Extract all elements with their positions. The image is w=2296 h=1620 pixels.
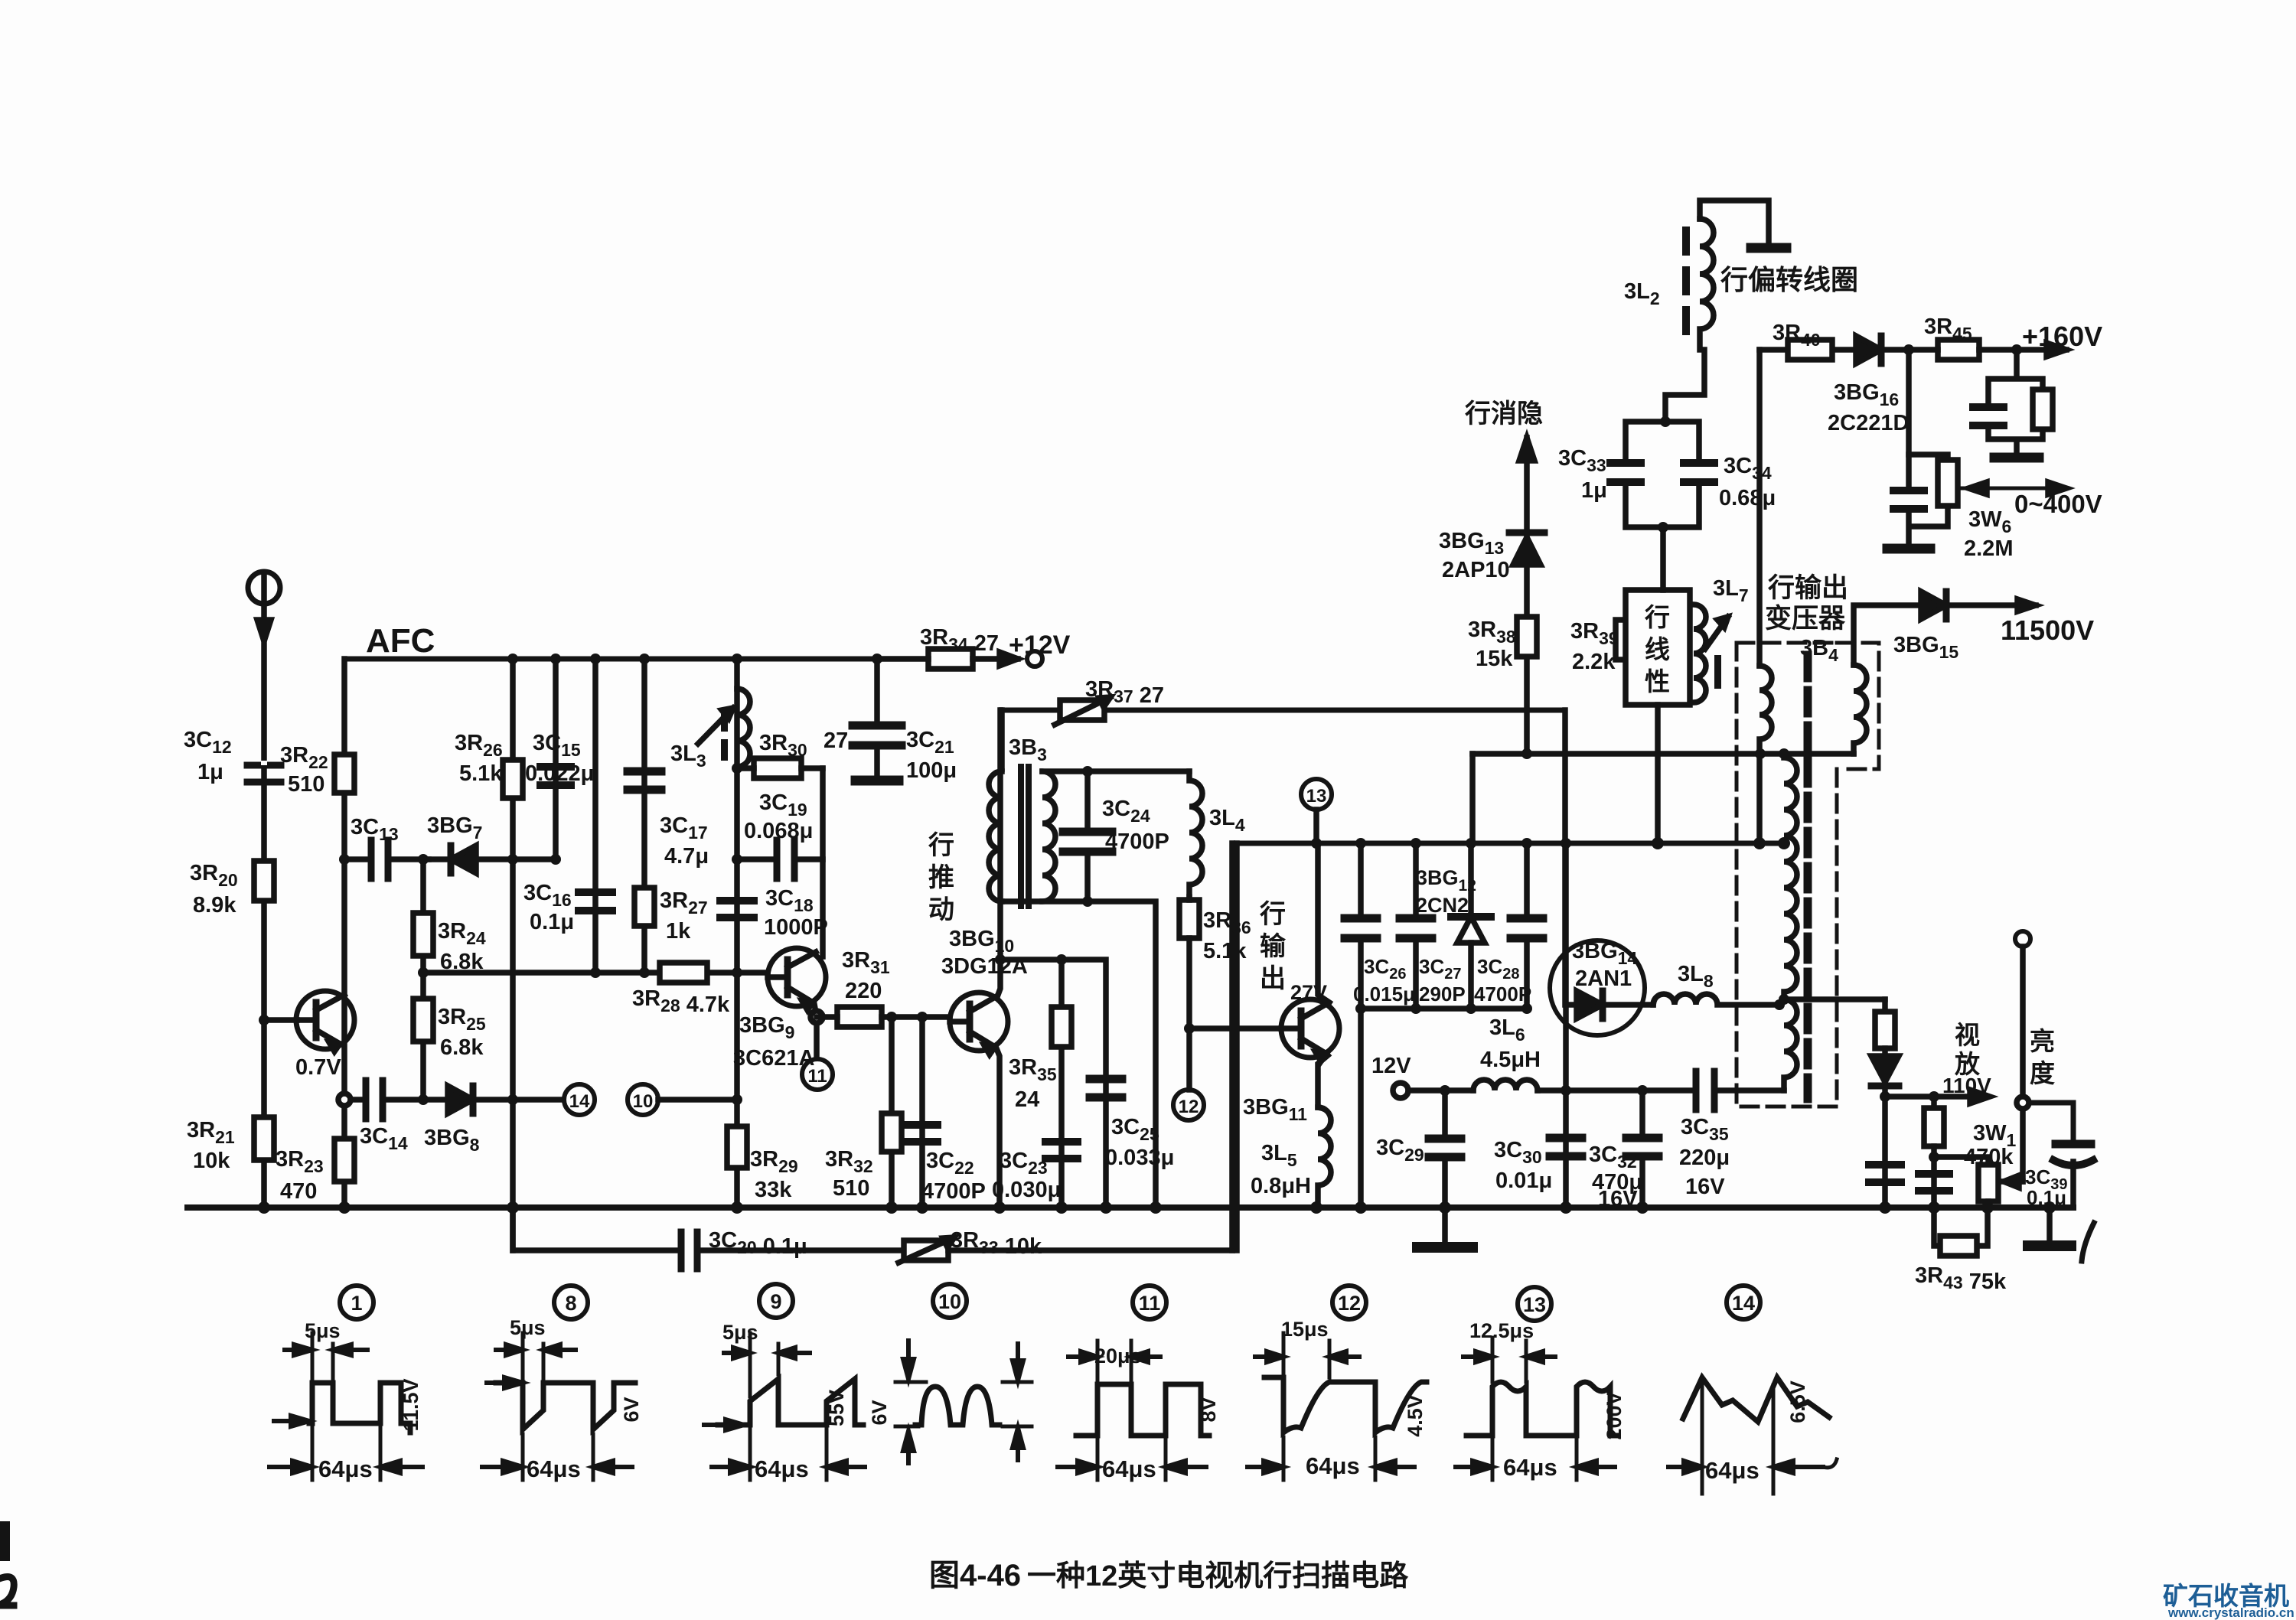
capacitor 3C29 electrolytic [1429,1090,1461,1208]
diode 3BG8 [448,1086,563,1113]
wire winding C to damper branch [1784,996,1885,1002]
resistor 3R26 [503,760,523,798]
svg-text:8V: 8V [1197,1397,1220,1422]
resistor 3R39 [1616,620,1636,660]
svg-text:行: 行 [1644,603,1670,631]
svg-text:亮: 亮 [2030,1027,2055,1055]
winding A 3B4 [1760,666,1772,754]
wf8 64us ticks [523,1434,593,1480]
node dot 3R24 tap [418,854,429,865]
resistor 3R33 variable [899,1237,1232,1263]
svg-text:110V: 110V [1942,1074,1991,1097]
resistor 3R24 vertical chain [420,859,426,1100]
capacitor 3C16 [579,892,612,911]
wire linearity stem bottom [1655,705,1661,843]
transistor 3BG9 [768,948,826,1010]
svg-text:3C25: 3C25 [1111,1115,1159,1144]
svg-text:3L8: 3L8 [1678,962,1714,991]
transistor 3BG11 [1281,999,1339,1061]
wire 3BG11 emitter down [1318,1055,1328,1107]
svg-text:2AP10: 2AP10 [1442,558,1510,582]
node dot x450 at 3C13 row [339,854,350,865]
resistor 3R30 [737,758,823,778]
svg-text:12: 12 [1179,1097,1199,1117]
resistor above 3W1 [1924,1097,1944,1208]
waveform 12 group [1247,1333,1427,1480]
svg-text:3R38: 3R38 [1468,618,1516,647]
svg-text:16V: 16V [1598,1187,1638,1211]
svg-text:510: 510 [833,1176,869,1201]
wf1 pulse trace [309,1383,410,1433]
svg-text:行: 行 [1260,900,1286,929]
svg-text:15k: 15k [1476,647,1513,671]
winding D 3B4 [1784,999,1797,1090]
svg-text:3C20 0.1μ: 3C20 0.1μ [709,1228,807,1259]
resistor 3R37 variable [1055,697,1110,725]
svg-text:4700P: 4700P [1105,830,1169,854]
svg-text:3R21: 3R21 [187,1118,235,1147]
AFC bus wire W1 [344,657,877,662]
node dot +160V branch [1903,344,1914,355]
wf8 5us ticks [523,1333,543,1379]
capacitor 3C30 [1550,1138,1582,1156]
svg-text:输: 输 [1260,932,1287,961]
svg-text:3L6: 3L6 [1489,1015,1525,1045]
wire collector row to 3R35/3C25 [1000,960,1106,1208]
node dot 3BG11 base tap [1184,1023,1195,1034]
arrow 110V output [1885,1090,1990,1103]
svg-text:3C12: 3C12 [184,728,232,757]
diode 3BG12 zener [1451,843,1491,1009]
wf11 20us arrows [1068,1351,1160,1362]
svg-text:3C35: 3C35 [1681,1115,1729,1144]
resistor 3R32 [882,1113,902,1152]
node dot 3L8 right [1774,999,1785,1010]
node dot 3W1 top [1929,1091,1939,1102]
node dot winding C bottom [1779,994,1789,1005]
wf14 64us ticks [1702,1382,1773,1494]
capacitor 3C20 series [681,1232,904,1269]
capacitor 3C25 [1090,1079,1122,1097]
wire x2299 vertical to 3B4 [1756,350,1763,666]
wire x2046 W3-to-bus [1563,843,1569,1208]
wire node13 down to W3 [1313,810,1319,843]
capacitor 3C39 [2053,1144,2093,1208]
svg-text:10k: 10k [193,1149,230,1173]
capacitor below 3W1 node [1919,1174,1949,1191]
transformer 3B3 core [1021,767,1029,906]
svg-text:0.1μ: 0.1μ [530,910,574,934]
transformer 3B3 primary winding [989,771,1002,901]
svg-text:6.8k: 6.8k [440,1035,484,1060]
svg-text:3C24: 3C24 [1102,797,1150,826]
svg-text:8: 8 [565,1292,576,1315]
capacitor 3C18 [720,901,754,918]
diode 3BG13 [1509,533,1544,565]
svg-text:8.9k: 8.9k [193,893,236,918]
node dot winding C tap at W3 [1778,837,1790,849]
wire 12V row [1393,1083,1473,1098]
wire 3R35-3C23 vertical [1058,960,1065,1208]
long vertical wire x670 [510,659,516,1250]
svg-text:度: 度 [2030,1059,2055,1087]
resistor 3R36 [1179,897,1199,1028]
resistor 3R22 [334,755,354,793]
node dots 3L6 row [1561,1085,1648,1096]
svg-text:3R25: 3R25 [438,1005,486,1034]
node dot damper out [1880,1091,1890,1102]
svg-text:图4-46: 图4-46 [929,1559,1021,1592]
waveform 10 group [895,1341,1032,1463]
linearity box [1626,590,1690,705]
resistor 3R23 [334,1139,354,1182]
node dot 3C29 [1440,1085,1450,1096]
resistor 3R35 [1052,1007,1071,1047]
svg-text:4700P: 4700P [1474,983,1531,1006]
svg-text:3BG9: 3BG9 [739,1013,794,1042]
wire to node 12 [1186,1028,1192,1090]
arrow 0-400V [1958,482,2066,494]
svg-text:2C221D: 2C221D [1828,411,1909,435]
node dot 3R25 bottom on C14 wire [418,1094,429,1105]
node dot 3BG7 wire / long vertical [507,854,518,865]
svg-text:3R26: 3R26 [455,731,503,760]
wire 3BG10 collector vertical to W2 [998,710,1000,995]
svg-text:64μs: 64μs [318,1455,373,1482]
capacitor 3C26 [1345,843,1377,1009]
wf11 20us ticks [1097,1341,1131,1380]
wf9 lead arrow [704,1420,744,1430]
svg-text:20μs: 20μs [1094,1345,1142,1367]
svg-text:3C30: 3C30 [1494,1138,1542,1167]
circled wf number 12 [1332,1286,1366,1319]
svg-text:3C34: 3C34 [1724,454,1772,483]
wire 3R30 right corner down [820,768,826,957]
ground symbol right [2028,1208,2071,1246]
svg-text:6V: 6V [868,1400,891,1425]
wire to pot 3W1 [1934,1157,1988,1165]
resistor 3R34 [877,649,1018,669]
node dot W5/x963 [732,1094,742,1105]
wf9 5us arrows [724,1348,810,1358]
node dot long vertical at C14 row [507,1094,518,1105]
wire 3B3 secondary top to 3L4 [1042,768,1189,774]
svg-text:9: 9 [770,1290,781,1313]
svg-text:5μs: 5μs [722,1321,758,1344]
transformer 3B4 dashed box [1737,643,1879,1107]
node dots ground bus [258,1201,1994,1214]
node dot base Q1 [259,1015,269,1025]
wf10 trace [915,1387,1000,1425]
capacitor 3C12 [247,761,281,782]
svg-text:3R22: 3R22 [280,743,328,772]
wf10 left arrows [903,1341,914,1463]
wire linearity stem top [1660,527,1666,590]
waveform 13 group [1456,1338,1618,1480]
svg-text:行偏转线圈: 行偏转线圈 [1720,264,1858,295]
ground symbol main [1417,1208,1473,1247]
ground bus bottom [188,1204,2073,1211]
wf1 64us arrows [269,1461,422,1473]
svg-text:视: 视 [1955,1021,1980,1049]
svg-text:3BG8: 3BG8 [424,1126,480,1155]
terminal +12V [1027,651,1042,667]
node dot x2299 at W3 [1753,837,1766,849]
winding B 3B4 [1854,665,1867,754]
svg-text:12.5μs: 12.5μs [1469,1319,1534,1342]
bar terminal deflection [1751,243,1786,253]
capacitor 3C32 [1626,1090,1658,1208]
resistor 3R43 bypass loop [1934,1208,1988,1256]
diode 3BG15 [1921,592,1946,619]
svg-text:3C33: 3C33 [1558,446,1606,475]
wire W4 [1361,1006,1527,1012]
wire 3L2 top [1700,200,1769,243]
winding C 3B4 [1784,754,1797,999]
wf9 64us arrows [712,1461,865,1473]
svg-text:14: 14 [569,1091,590,1112]
node dots W2b [1521,748,1789,759]
wf14 64us arrows [1668,1459,1837,1473]
wf11 64us ticks [1097,1440,1166,1480]
svg-text:+12V: +12V [1009,631,1071,660]
inductor 3L4 [1189,771,1202,897]
svg-text:行: 行 [928,831,954,860]
svg-text:3C22: 3C22 [926,1149,974,1178]
node dot linearity stem at W3 [1652,837,1664,849]
wire diode junction down [1906,350,1912,455]
wire damper cap down [1882,1097,1888,1208]
wire W4 left down to bus [1358,1009,1364,1208]
svg-text:10: 10 [633,1091,654,1112]
inductor 3L6 [1473,1080,1538,1090]
node dots W3 [1311,838,1571,849]
svg-text:470k: 470k [1964,1145,2014,1169]
capacitor 3C27 [1400,843,1432,1009]
capacitor module 3C33/3C34 frame [1626,422,1699,527]
wire node10 to x963 [658,1097,737,1103]
node dot collector row [995,954,1006,965]
resistor 3R38 [1517,617,1537,657]
node dot 3C24 top [1082,766,1093,777]
svg-text:2CN2: 2CN2 [1416,894,1469,917]
wf12 15us ticks [1283,1333,1329,1377]
resistor 3R27 [634,888,654,926]
wire W2 top [1002,708,1565,713]
svg-text:3BG12: 3BG12 [1416,866,1476,895]
circled wf number 1 [340,1286,373,1319]
svg-text:5μs: 5μs [510,1316,546,1339]
svg-text:3C29: 3C29 [1376,1136,1424,1165]
svg-text:3C16: 3C16 [523,881,572,910]
svg-text:3R39: 3R39 [1570,619,1619,648]
svg-text:220μ: 220μ [1679,1146,1730,1170]
svg-text:3B3: 3B3 [1009,735,1047,764]
svg-text:55V: 55V [825,1390,848,1426]
svg-text:3C32: 3C32 [1589,1142,1637,1172]
circled wf number 11 [1133,1286,1166,1319]
circled wf number 10 [933,1284,967,1318]
wire base Q1 [264,1017,297,1023]
wire hxiaoyin vertical x1995 [1524,438,1530,753]
svg-text:6.8k: 6.8k [440,950,484,974]
svg-text:27: 27 [823,729,848,753]
svg-text:15μs: 15μs [1281,1318,1329,1341]
resistor 3R29 [727,1126,747,1168]
node dot 3R35 top [1056,954,1067,965]
capacitor 3C33 [1610,463,1641,482]
wf9 trace [718,1379,863,1425]
wire 3C16 vertical [592,659,598,973]
svg-text:3R29: 3R29 [750,1147,798,1176]
node dots on W5 [418,967,742,978]
wire emitter 3BG9 down [814,1004,817,1058]
svg-text:3R27: 3R27 [660,888,708,918]
lower loop wire 3C20-3R33 [513,1208,678,1250]
wf8 trace [496,1383,635,1429]
wf11 trace [1076,1384,1209,1436]
waveform 1 group [269,1333,422,1480]
svg-text:64μs: 64μs [1503,1454,1557,1481]
wire input vertical [261,604,267,1208]
svg-text:13: 13 [1523,1293,1546,1316]
wf14 trace [1683,1377,1829,1422]
wire 3L2 bottom elbow [1665,350,1704,422]
svg-text:220: 220 [845,979,882,1003]
inductor 3L3 adjustable [698,689,750,767]
wf9 64us ticks [750,1429,827,1480]
svg-text:0~400V: 0~400V [2014,490,2102,518]
svg-text:4.7μ: 4.7μ [664,844,709,869]
open node brightness [2017,1097,2029,1109]
node dot 3C22 tap [917,1012,928,1022]
svg-text:行输出: 行输出 [1768,573,1848,603]
node dots on AFC bus [507,654,882,664]
wire base 3BG11 [1189,1025,1281,1032]
svg-text:3C21: 3C21 [906,728,954,757]
svg-text:5.1k: 5.1k [459,761,503,786]
svg-text:100μ: 100μ [906,758,957,783]
inductor 3L8 [1653,994,1779,1005]
circled wf number 14 [1727,1286,1760,1319]
diode 3BG14 in circle [1550,940,1653,1035]
capacitor 3C19 series [737,840,823,878]
arrow down on input wire [257,620,271,641]
waveform 14 group [1668,1377,1837,1494]
wire x2299 W2b to W3 [1756,754,1763,843]
wire 3BG10 emitter down to bus [996,1048,1000,1208]
node dot 3C24 bottom [1082,896,1093,907]
resistor 3R31 [817,1007,950,1027]
wf1 lead arrow [274,1416,309,1426]
wire W3 left corner down [1234,843,1240,1250]
capacitor damper filter [1869,1165,1901,1182]
svg-text:1μ: 1μ [1581,478,1607,503]
wire 3C17-3R27 vertical [641,659,647,973]
wire 3B3 bottom row [1002,901,1156,1208]
wf8 lead arrow [487,1377,523,1388]
capacitor 3C21 electrolytic [853,659,902,781]
waveform 8 group [482,1333,635,1480]
svg-text:12: 12 [1338,1292,1361,1315]
svg-text:3L2: 3L2 [1624,279,1660,308]
svg-text:5.1k: 5.1k [1203,939,1247,963]
svg-text:3BG14: 3BG14 [1572,939,1637,968]
diode 3BG16 [1856,336,1881,363]
svg-text:11.5V: 11.5V [400,1378,422,1431]
svg-text:3L4: 3L4 [1209,806,1245,835]
wire loop right vertical x1610 [1229,843,1235,1250]
wire 3L3 vertical [734,659,740,859]
wf12 trace [1264,1377,1427,1433]
wire 3C18 vertical continue [734,859,740,1208]
svg-text:1k: 1k [666,919,691,944]
potentiometer 3W1 [1978,1165,2023,1208]
svg-text:3C26: 3C26 [1364,955,1407,983]
svg-text:3C14: 3C14 [360,1124,408,1153]
node dot 3C33 module bottom [1658,522,1668,533]
capacitor 3C24 [1063,771,1112,901]
wf8 5us arrows [496,1345,576,1355]
circled wf number 9 [759,1284,793,1318]
svg-text:+160V: +160V [2022,321,2102,352]
circled wf number 8 [554,1286,588,1319]
svg-text:3C621A: 3C621A [733,1046,814,1071]
node 1 input terminal [248,572,280,604]
stray mark slash [2082,1223,2094,1261]
svg-text:AFC: AFC [366,622,435,660]
svg-text:0.7V: 0.7V [295,1055,341,1080]
svg-text:3R28 4.7k: 3R28 4.7k [632,986,730,1017]
svg-text:出: 出 [1260,964,1286,993]
resistor 3R24 [413,913,433,956]
node dot +160 RC [2011,344,2022,355]
wf1 5us arrows [285,1345,367,1355]
diode damper down [1871,1056,1899,1097]
svg-text:4.5μH: 4.5μH [1480,1048,1541,1072]
capacitor 3C23 [1045,1142,1078,1159]
svg-text:3BG13: 3BG13 [1439,529,1504,558]
node 11 circled [802,1059,833,1090]
node dot brightness bus [2043,1201,2056,1214]
wire brightness elbow to 3C39 [2029,1103,2073,1144]
svg-text:27V: 27V [1290,981,1327,1004]
wire W2b [1473,751,1854,757]
page edge mark bar [0,1521,10,1561]
svg-text:1μ: 1μ [197,760,223,784]
svg-text:动: 动 [928,895,954,924]
svg-text:5μs: 5μs [305,1319,341,1342]
svg-text:3C17: 3C17 [660,813,708,843]
svg-text:12V: 12V [1371,1054,1411,1078]
svg-text:0.015μ: 0.015μ [1353,983,1415,1006]
open node 3BG9 emitter [810,1011,823,1023]
svg-text:性: 性 [1645,667,1670,696]
node dot module top [1660,416,1671,427]
resistor 3R21 [254,1117,274,1160]
node 12 circled [1173,1090,1204,1120]
svg-text:一种12英寸电视机行扫描电路: 一种12英寸电视机行扫描电路 [1027,1560,1409,1592]
svg-text:0.030μ: 0.030μ [992,1178,1061,1202]
RC network top right [1973,350,2053,458]
transformer 3B4 core dashes [1804,655,1812,1099]
wf13 64us arrows [1456,1461,1615,1473]
svg-text:64μs: 64μs [527,1455,581,1482]
svg-text:0.01μ: 0.01μ [1495,1169,1552,1193]
wire 11500V [1854,605,2036,665]
capacitor 3C22 [907,1125,938,1142]
svg-text:0.8μH: 0.8μH [1251,1174,1311,1198]
